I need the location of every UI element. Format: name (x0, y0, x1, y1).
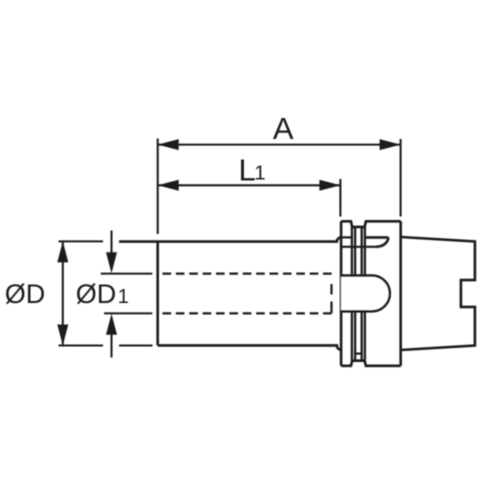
flange top edge with V-groove notch (341, 221, 401, 227)
bore dashed top line (163, 273, 332, 275)
arrowhead L1 right (319, 180, 340, 191)
flange left face (340, 221, 343, 365)
groove silhouette verticals lower (352, 311, 365, 360)
groove silhouette verticals upper (352, 227, 365, 276)
wire: body outline top (119, 237, 341, 241)
OD tick top (59, 240, 104, 242)
bore dashed end vertical (330, 284, 332, 313)
extension line right L1 (339, 179, 341, 217)
drive slot D-bulge (341, 276, 390, 312)
flange long feature line (341, 246, 376, 248)
OD1 tick top (101, 273, 153, 275)
wire: body outline bottom (158, 345, 341, 349)
OD dimension vertical line (62, 241, 64, 345)
arrowhead L1 left (158, 180, 179, 191)
OD1 bottom arrow (110, 332, 112, 358)
OD tick bottom (59, 344, 153, 346)
arrowhead A right (380, 139, 401, 150)
flap arc (376, 237, 388, 246)
extension line right A (400, 139, 402, 217)
flap top edge (366, 236, 389, 239)
arrowhead OD bottom (57, 325, 68, 346)
extension line left shared A/L1 (157, 139, 159, 235)
flange feature line upper left cell (341, 236, 352, 238)
flange right face (399, 221, 402, 365)
flange bottom edge with V-groove notch (341, 361, 401, 366)
dimension line A (158, 144, 401, 146)
bore dashed bottom line (163, 312, 332, 314)
taper shank outline (401, 237, 475, 350)
arrowhead OD top (57, 241, 68, 262)
OD1 tick bottom (104, 312, 152, 314)
flange lower inner bar (355, 353, 362, 355)
svg-text:L1: L1 (239, 153, 266, 188)
OD1 top arrow (110, 231, 112, 256)
dimension line L1 (158, 184, 341, 186)
svg-text:ØD1: ØD1 (76, 279, 129, 309)
svg-text:ØD: ØD (5, 279, 46, 309)
wire: body left face (156, 242, 159, 346)
arrowhead A left (158, 139, 179, 150)
svg-text:A: A (273, 111, 294, 146)
